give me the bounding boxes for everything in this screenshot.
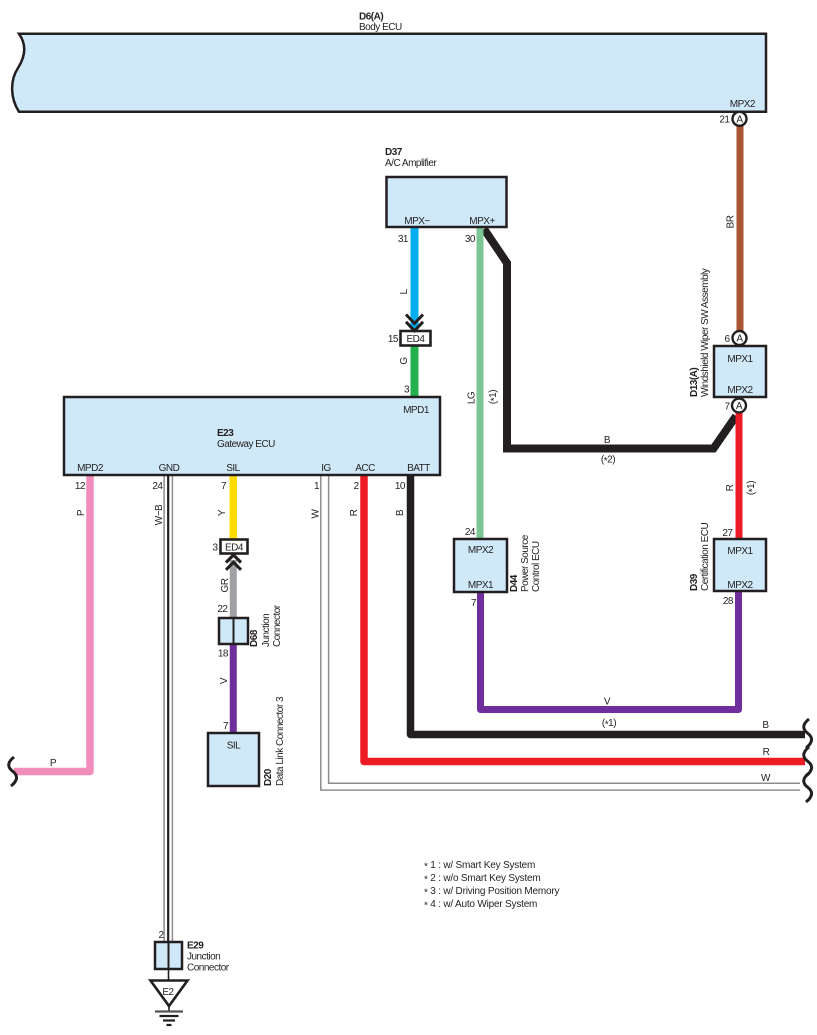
svg-text:ED4: ED4 [225,542,244,553]
svg-text:Power Source: Power Source [520,534,531,592]
svg-text:D20: D20 [263,768,274,786]
svg-text:MPX−: MPX− [404,216,430,227]
svg-text:B: B [604,435,611,446]
svg-text:21: 21 [719,115,730,126]
svg-text:Junction: Junction [187,952,220,963]
svg-text:GR: GR [220,578,231,592]
svg-text:Connector: Connector [272,604,283,647]
svg-text:B: B [762,720,769,731]
svg-text:(*2): (*2) [601,455,615,468]
svg-text:24: 24 [465,527,476,538]
svg-text:D13(A): D13(A) [689,368,700,397]
svg-text:B: B [395,509,406,516]
svg-text:BR: BR [726,215,737,228]
svg-text:E2: E2 [162,987,174,998]
svg-text:MPX2: MPX2 [468,545,494,556]
svg-text:V: V [604,697,611,708]
svg-text:R: R [349,509,360,516]
svg-text:MPD2: MPD2 [77,463,104,474]
svg-text:Body ECU: Body ECU [359,22,402,33]
svg-text:10: 10 [395,481,406,492]
svg-text:(*1): (*1) [746,481,759,495]
svg-text:IG: IG [321,463,331,474]
svg-text:A/C Amplifier: A/C Amplifier [385,158,437,169]
svg-text:12: 12 [75,481,86,492]
svg-text:(*1): (*1) [488,390,501,404]
svg-text:SIL: SIL [226,463,240,474]
svg-text:G: G [399,357,410,365]
svg-text:D37: D37 [385,147,403,158]
svg-text:P: P [50,758,57,769]
svg-text:D68: D68 [249,629,260,647]
svg-text:BATT: BATT [407,463,430,474]
svg-text:18: 18 [218,649,229,660]
svg-text:R: R [725,484,736,491]
svg-text:MPX1: MPX1 [468,580,494,591]
svg-text:SIL: SIL [227,741,241,752]
svg-text:Control ECU: Control ECU [531,541,542,592]
svg-text:Gateway ECU: Gateway ECU [217,439,275,450]
svg-text:Windshield Wiper SW Assembly: Windshield Wiper SW Assembly [700,268,711,397]
svg-text:30: 30 [465,234,476,245]
svg-text:* 3 : w/ Driving Position Memo: * 3 : w/ Driving Position Memory [424,886,560,899]
svg-text:E23: E23 [217,428,234,439]
svg-text:D39: D39 [689,573,700,591]
svg-text:A: A [736,115,743,126]
svg-text:R: R [763,747,770,758]
svg-text:28: 28 [723,596,734,607]
svg-text:* 1 : w/ Smart Key System: * 1 : w/ Smart Key System [424,860,535,873]
svg-text:P: P [76,509,87,516]
svg-text:V: V [219,677,230,684]
svg-text:15: 15 [388,334,399,345]
svg-text:(*1): (*1) [602,718,616,731]
svg-text:Y: Y [217,509,228,516]
svg-text:LG: LG [467,391,478,404]
svg-text:D44: D44 [509,574,520,592]
svg-text:Certification ECU: Certification ECU [700,523,711,591]
svg-text:MPX+: MPX+ [469,216,495,227]
svg-text:MPX2: MPX2 [730,99,756,110]
svg-text:GND: GND [159,463,180,474]
svg-text:22: 22 [217,604,228,615]
svg-text:MPX1: MPX1 [727,546,753,557]
svg-text:ACC: ACC [355,463,375,474]
svg-text:24: 24 [152,481,163,492]
svg-text:31: 31 [398,234,409,245]
svg-text:D6(A): D6(A) [359,12,383,23]
svg-text:MPX1: MPX1 [727,354,753,365]
svg-text:ED4: ED4 [407,334,426,345]
svg-text:* 4 : w/ Auto Wiper System: * 4 : w/ Auto Wiper System [424,899,537,912]
svg-text:MPD1: MPD1 [403,405,430,416]
svg-text:Data Link Connector 3: Data Link Connector 3 [275,696,286,786]
svg-text:W: W [311,508,322,518]
svg-text:Junction: Junction [261,614,272,647]
svg-text:A: A [736,401,743,412]
svg-text:E29: E29 [187,941,204,952]
svg-text:W: W [761,773,771,784]
svg-text:* 2 : w/o Smart Key System: * 2 : w/o Smart Key System [424,873,541,886]
svg-text:Connector: Connector [187,963,230,974]
svg-text:A: A [736,334,743,345]
svg-text:MPX2: MPX2 [727,580,753,591]
svg-text:W−B: W−B [154,504,165,525]
svg-text:MPX2: MPX2 [727,385,753,396]
svg-text:27: 27 [722,528,733,539]
